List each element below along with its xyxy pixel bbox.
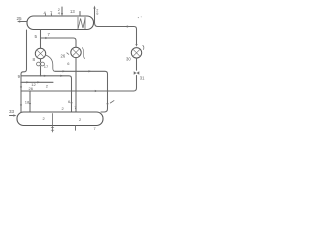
pump P1 (circle with X) [35,48,45,58]
labels [9,8,145,131]
svg-text:7: 7 [94,127,96,131]
svg-text:18: 18 [25,100,30,105]
svg-text:7: 7 [74,105,77,110]
wire: compressor discharge down [136,58,138,70]
svg-text:26: 26 [29,86,34,91]
wire: line H1 across to right drop [55,71,108,112]
wire: P1 to gear pump [40,59,42,62]
dip tube (dashed) below V2 [52,114,54,133]
svg-text:2: 2 [79,117,82,122]
svg-text:25: 25 [17,16,23,21]
label hook 17 right of compressor [143,46,144,50]
svg-text:33: 33 [9,109,15,114]
vent line 29 up from V1 right end [94,8,96,23]
wire: V1 drain to pump P1 [40,30,42,48]
svg-text:26: 26 [61,54,66,59]
wire: P1 vapour S-curve to line H1 [46,55,55,71]
demister pad inside V1 [78,17,85,29]
wire: product line 25 leaving V1 left [20,21,27,23]
svg-text:6: 6 [68,99,71,104]
wire: overhead vapour line V1 to compressor [95,23,137,45]
tick left of P2 [67,53,69,55]
wire: valve outlet down and left to header [134,76,137,92]
wire: bottom header H3 [21,90,134,92]
svg-text:31: 31 [140,76,145,81]
svg-text:9: 9 [96,12,98,16]
stub below V2 [75,126,77,131]
nozzle tick on V1 top [79,12,81,17]
feed arrow 33 into V2 left [10,115,15,117]
feed line 24 into V1 top [61,7,63,14]
wire: branch to pump P2 [41,38,77,47]
diagonal tick 32 beside arrow [110,101,114,103]
wire: header drop into V2 at x30 [29,91,31,112]
svg-text:6: 6 [67,61,70,66]
squiggle label right of P2 [82,48,84,59]
svg-text:30: 30 [126,56,131,61]
svg-text:8: 8 [33,57,36,62]
svg-text:4: 4 [58,11,60,15]
svg-text:2: 2 [46,84,49,89]
wire: line H2b (y=82.3) [21,81,53,83]
gear pump (two small circles) [37,62,41,66]
svg-text:7: 7 [48,32,51,37]
svg-text:13: 13 [70,9,75,14]
svg-text:9: 9 [18,74,21,79]
svg-text:2: 2 [62,106,65,111]
valve 31 (bowtie) [134,71,140,75]
vessel V2 (bottom drum) [17,112,103,126]
wire: gear pump down to line H2 [40,66,42,76]
svg-text:7: 7 [50,11,53,16]
svg-text:4: 4 [44,11,47,16]
svg-text:2: 2 [43,116,46,121]
specks top right [138,17,139,18]
pump P2 (circle with X) [71,47,81,57]
svg-text:5: 5 [35,34,38,39]
wire: P2 outlet down to V2 [75,58,77,112]
svg-text:17: 17 [44,64,49,69]
junction dots on header [71,90,72,91]
wire: line H2 with step down to V2 [22,76,72,112]
wire: V1 bottoms drain with jog to vessel V2 [21,30,27,112]
compressor U3 (circle with X) [131,48,141,58]
vessel V1 (top separator drum) [27,16,94,30]
